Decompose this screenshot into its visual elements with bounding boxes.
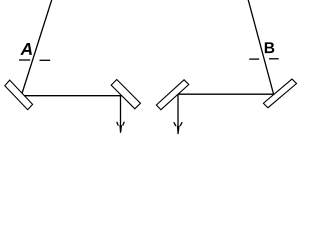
reflected ray down from M2 [120,96,122,133]
normal dash left of B [249,58,259,60]
arrowhead left: filled tip [119,125,122,132]
mirror M3 (right group, left) [156,80,188,110]
mirror M4 (right group, lower-right) [263,79,296,108]
horizontal ray M1 to M2 [19,95,123,97]
arrowhead left: barbs [117,122,119,126]
incident ray B (diagonal, from top into mirror M4) [248,0,275,98]
reflected ray down from M3 [177,94,179,134]
label A (bold italic glyph path) [20,43,32,55]
incident ray A (diagonal, from top into mirror M1) [22,0,53,95]
label B (bold glyph path) [265,42,275,53]
mirror M1 (left group, lower-left) [5,80,33,110]
normal dash right of B [269,58,279,60]
normal dash left of A [19,59,30,61]
arrowhead right: filled tip [177,126,180,132]
mirror M2 (left group, right) [111,80,140,109]
horizontal ray M4 to M3 [177,93,277,95]
arrowhead right: barbs [174,122,176,126]
normal dash right of A [40,59,51,61]
